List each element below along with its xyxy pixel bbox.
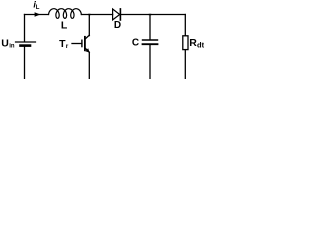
wire capacitor branch lower xyxy=(149,45,151,79)
voltage source U_in (battery) xyxy=(16,42,36,46)
wire diode to top-right corner xyxy=(120,14,185,16)
junction node transistor-collector on top wire xyxy=(89,14,91,16)
svg-text:L: L xyxy=(36,5,40,11)
svg-text:L: L xyxy=(61,20,68,32)
label R_d xyxy=(189,37,204,50)
svg-text:D: D xyxy=(114,20,121,31)
current arrow i_L xyxy=(35,12,41,17)
wire capacitor branch upper xyxy=(149,15,151,40)
wire top-left segment xyxy=(25,14,49,16)
label T_r xyxy=(59,38,69,50)
wire left branch upper xyxy=(24,15,26,42)
wire transistor collector xyxy=(88,15,90,36)
resistor R_d xyxy=(183,36,188,50)
diode D xyxy=(113,9,121,20)
svg-text:dt: dt xyxy=(197,41,205,50)
wire inductor to diode xyxy=(81,14,112,16)
wire resistor branch upper xyxy=(184,15,186,36)
wire transistor emitter xyxy=(88,52,90,79)
transistor T_r (IGBT) xyxy=(72,35,89,52)
svg-text:U: U xyxy=(1,37,9,49)
label U_in xyxy=(1,37,15,49)
transistor emitter arrowhead xyxy=(85,48,89,52)
svg-text:C: C xyxy=(132,37,139,48)
wire left branch lower xyxy=(24,47,26,79)
inductor L xyxy=(49,9,82,19)
label i_L xyxy=(33,0,39,11)
wire resistor branch lower xyxy=(184,50,186,79)
junction node capacitor-top on top wire xyxy=(149,14,151,16)
svg-text:R: R xyxy=(189,37,197,49)
capacitor C xyxy=(143,40,158,44)
svg-text:in: in xyxy=(9,44,15,50)
